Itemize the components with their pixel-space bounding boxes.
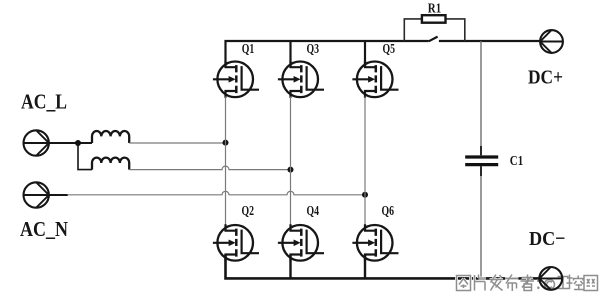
mosfet Q3 [278, 61, 324, 98]
mosfet Q2 [213, 224, 259, 261]
wire bottom rail [226, 255, 540, 279]
wire Q3 drain pin [289, 41, 291, 67]
resistor R1 body [422, 15, 446, 23]
watermark [457, 275, 598, 292]
port DC- [539, 267, 562, 290]
wire top rail [226, 41, 429, 67]
switch S1 lever [429, 37, 438, 42]
wire Q1 source to Q2 drain [225, 97, 227, 226]
wire Q5 source to Q6 drain [364, 97, 366, 226]
mosfet Q1 [213, 61, 259, 98]
wire L2 output to Q3/Q4 node with hop [129, 166, 290, 170]
inductor L2 [92, 158, 129, 170]
wire capacitor top column [480, 41, 482, 155]
mosfet Q5 [352, 61, 398, 98]
capacitor C1 [480, 146, 482, 176]
junction dot node D [362, 192, 368, 198]
resistor R1 bypass right lead [446, 19, 465, 41]
svg-text:DC−: DC− [529, 228, 566, 250]
wire L1 output to Q1/Q2 node [129, 142, 225, 144]
svg-text:AC_L: AC_L [21, 90, 67, 114]
junction dot node C [288, 167, 294, 173]
port AC_N [24, 182, 49, 207]
mosfet Q6 [352, 224, 398, 261]
port AC_L [24, 130, 49, 155]
port DC+ [540, 30, 563, 53]
junction dot node B [223, 140, 229, 146]
svg-text:Q3: Q3 [307, 41, 320, 56]
junction dot A [75, 140, 81, 146]
wire Q5 drain pin [364, 41, 366, 67]
svg-text:Q1: Q1 [242, 41, 255, 56]
wire Q4 source pin [289, 255, 291, 279]
svg-text:Q2: Q2 [242, 203, 255, 218]
svg-text:Q5: Q5 [383, 41, 396, 56]
wire top rail right of switch [439, 40, 540, 42]
inductor L1 [92, 131, 129, 143]
svg-text:R1: R1 [428, 1, 441, 16]
wire Q3 source to Q4 drain [290, 97, 292, 226]
svg-text:DC+: DC+ [528, 67, 563, 89]
wire junction A down to lower branch [78, 143, 92, 170]
svg-text:Q6: Q6 [382, 203, 395, 218]
wire AC_N port stub [49, 194, 68, 196]
mosfet Q4 [278, 224, 324, 261]
wire capacitor bottom column [480, 166, 482, 278]
resistor R1 bypass left lead [404, 19, 422, 41]
wire AC_L port to junction [49, 142, 92, 144]
wire AC_N to Q5/Q6 node with hops [67, 191, 365, 194]
svg-text:C1: C1 [510, 153, 523, 168]
svg-text:AC_N: AC_N [20, 217, 68, 241]
wire Q6 source pin [364, 255, 366, 279]
svg-text:Q4: Q4 [307, 203, 320, 218]
